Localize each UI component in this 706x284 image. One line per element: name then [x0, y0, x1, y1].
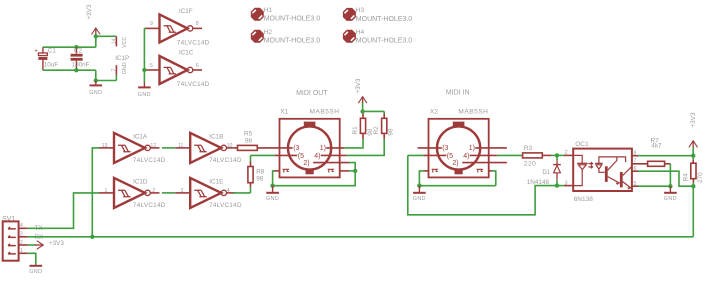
svg-text:C1: C1 [48, 48, 57, 55]
svg-text:(3: (3 [442, 145, 448, 152]
svg-text:7: 7 [112, 69, 118, 72]
svg-text:10uF: 10uF [44, 62, 59, 69]
svg-text:8: 8 [196, 21, 199, 27]
svg-text:IC1C: IC1C [179, 49, 194, 56]
svg-text:MIDI IN: MIDI IN [446, 90, 470, 97]
svg-text:GND: GND [413, 196, 426, 202]
svg-text:3: 3 [181, 188, 184, 194]
svg-text:C2: C2 [74, 48, 83, 55]
svg-text:IC1B: IC1B [209, 134, 223, 141]
svg-text:GND: GND [138, 92, 151, 98]
svg-text:GND: GND [266, 196, 279, 202]
svg-text:H1: H1 [264, 7, 273, 14]
svg-text:MAB5SH: MAB5SH [458, 109, 488, 116]
svg-text:R8: R8 [256, 169, 265, 176]
svg-text:9: 9 [150, 21, 153, 27]
svg-text:2): 2) [452, 160, 458, 167]
svg-text:GND: GND [89, 90, 102, 96]
svg-text:10: 10 [227, 143, 233, 149]
svg-text:6: 6 [196, 63, 199, 69]
svg-text:MIDI OUT: MIDI OUT [296, 90, 328, 97]
svg-text:14: 14 [112, 38, 118, 44]
svg-text:R3: R3 [524, 145, 533, 152]
svg-text:IC1E: IC1E [209, 179, 223, 186]
svg-text:4): 4) [463, 153, 469, 160]
svg-text:4k7: 4k7 [651, 143, 662, 150]
svg-text:4: 4 [20, 223, 23, 229]
svg-text:1): 1) [320, 145, 326, 152]
svg-text:74LVC14D: 74LVC14D [177, 81, 210, 88]
svg-text:GND: GND [664, 196, 677, 202]
svg-text:X2: X2 [430, 109, 438, 116]
svg-text:12: 12 [150, 143, 156, 149]
svg-text:98: 98 [256, 176, 264, 183]
svg-text:2: 2 [565, 150, 568, 156]
svg-text:IC1F: IC1F [179, 8, 193, 15]
svg-text:74LVC14D: 74LVC14D [177, 39, 210, 46]
svg-text:X1: X1 [280, 109, 288, 116]
svg-text:3: 3 [20, 232, 23, 238]
svg-text:H3: H3 [356, 7, 365, 14]
svg-text:4: 4 [227, 188, 230, 194]
svg-text:6N138: 6N138 [574, 196, 594, 203]
svg-text:2: 2 [20, 240, 23, 246]
svg-text:R1: R1 [352, 126, 359, 135]
svg-text:+3V3: +3V3 [49, 240, 64, 247]
svg-text:74LVC14D: 74LVC14D [209, 202, 242, 209]
svg-text:11: 11 [178, 143, 184, 149]
svg-text:13: 13 [102, 143, 108, 149]
svg-text:MOUNT-HOLE3.0: MOUNT-HOLE3.0 [356, 38, 413, 45]
svg-text:5: 5 [150, 63, 153, 69]
svg-text:VCC: VCC [122, 36, 128, 47]
svg-text:98: 98 [245, 137, 253, 144]
svg-text:+3V3: +3V3 [355, 78, 362, 93]
svg-text:IC1D: IC1D [133, 179, 148, 186]
svg-text:IC1P: IC1P [115, 55, 129, 62]
svg-text:1: 1 [20, 248, 23, 254]
svg-text:H4: H4 [356, 29, 365, 36]
svg-text:100nF: 100nF [72, 62, 90, 69]
svg-text:+3V3: +3V3 [690, 112, 697, 127]
svg-text:H2: H2 [264, 29, 273, 36]
svg-text:1N4148: 1N4148 [527, 179, 550, 186]
svg-text:2): 2) [303, 160, 309, 167]
svg-text:+: + [34, 49, 38, 55]
svg-text:IC1A: IC1A [133, 134, 148, 141]
svg-text:4): 4) [314, 153, 320, 160]
svg-text:270: 270 [697, 172, 704, 183]
svg-text:R4: R4 [682, 173, 689, 182]
svg-text:MAB5SH: MAB5SH [310, 109, 340, 116]
svg-text:98: 98 [388, 128, 395, 136]
svg-text:2: 2 [152, 188, 155, 194]
svg-text:R2: R2 [373, 126, 380, 135]
svg-text:1): 1) [469, 145, 475, 152]
svg-text:(3: (3 [293, 145, 299, 152]
svg-text:GND: GND [29, 269, 42, 275]
svg-text:74LVC14D: 74LVC14D [133, 202, 166, 209]
svg-text:1: 1 [105, 188, 108, 194]
svg-text:MOUNT-HOLE3.0: MOUNT-HOLE3.0 [264, 16, 321, 23]
svg-text:+3V3: +3V3 [86, 4, 93, 19]
svg-text:MOUNT-HOLE3.0: MOUNT-HOLE3.0 [264, 38, 321, 45]
svg-text:GND: GND [122, 62, 128, 74]
svg-text:OC1: OC1 [575, 141, 589, 148]
svg-text:D1: D1 [542, 170, 550, 176]
svg-text:MOUNT-HOLE3.0: MOUNT-HOLE3.0 [356, 16, 413, 23]
svg-text:74LVC14D: 74LVC14D [209, 157, 242, 164]
svg-text:74LVC14D: 74LVC14D [133, 157, 166, 164]
svg-text:3: 3 [565, 180, 568, 186]
svg-text:220: 220 [524, 161, 537, 168]
